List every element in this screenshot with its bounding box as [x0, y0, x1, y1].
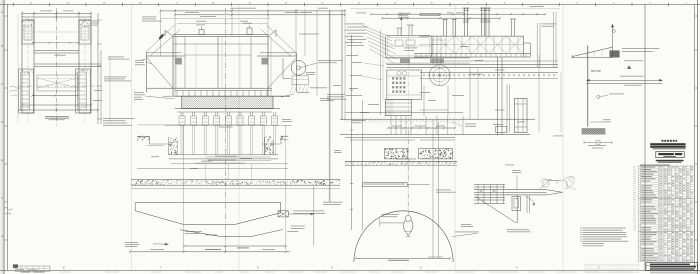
- svg-text:E: E: [1, 158, 3, 162]
- svg-text:D: D: [1, 120, 3, 124]
- svg-text:C: C: [1, 82, 3, 86]
- svg-text:A: A: [1, 10, 3, 14]
- svg-text:B: B: [1, 44, 3, 48]
- svg-text:G: G: [1, 234, 3, 238]
- svg-text:MOTOR: MOTOR: [591, 69, 601, 73]
